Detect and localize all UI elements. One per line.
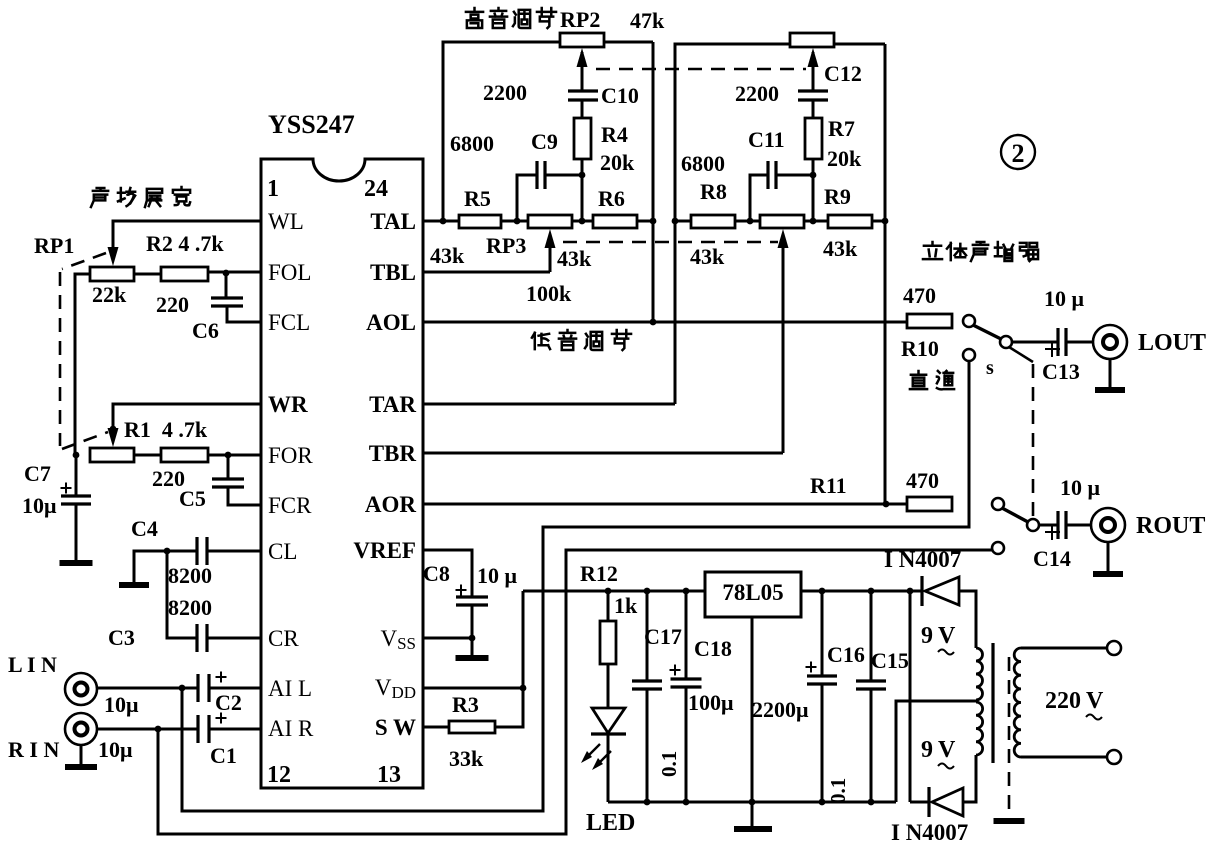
svg-text:YSS247: YSS247 bbox=[268, 110, 355, 139]
svg-text:47k: 47k bbox=[630, 8, 665, 33]
wire TAR bbox=[424, 403, 675, 406]
node RP1b left bbox=[73, 452, 80, 459]
capacitor C18 100u bbox=[670, 591, 702, 802]
label C13 bbox=[1042, 359, 1080, 384]
label 470 R10 bbox=[903, 283, 936, 308]
capacitor C17 0.1 bbox=[632, 591, 662, 802]
label R3 bbox=[452, 692, 479, 717]
regulator 78L05 bbox=[705, 572, 801, 617]
wire C4 left bbox=[134, 551, 197, 583]
label C7 bbox=[24, 461, 51, 486]
label C18 bbox=[694, 636, 732, 661]
svg-text:1k: 1k bbox=[614, 593, 638, 618]
node C16 top bbox=[868, 588, 875, 595]
label 8200 C3 bbox=[168, 595, 212, 620]
RP1b wiper arrow bbox=[108, 426, 119, 447]
label C3 bbox=[108, 625, 135, 650]
svg-text:LED: LED bbox=[586, 810, 635, 836]
capacitor C7 10u bbox=[61, 455, 92, 504]
node C8 VSS bbox=[469, 635, 476, 642]
svg-text:470: 470 bbox=[903, 283, 936, 308]
svg-text:AI R: AI R bbox=[268, 716, 314, 741]
label treble adjust RP2 bbox=[466, 7, 600, 32]
svg-text:C3: C3 bbox=[108, 625, 135, 650]
label 2200 right bbox=[735, 81, 779, 106]
svg-text:R12: R12 bbox=[580, 561, 618, 586]
label stereo enhance bbox=[923, 242, 1038, 261]
wire C13 to LOUT bbox=[1066, 341, 1093, 344]
capacitor C19 2200u bbox=[806, 591, 838, 802]
wire center tap bbox=[896, 701, 976, 802]
svg-text:10μ: 10μ bbox=[104, 692, 139, 717]
svg-text:V: V bbox=[938, 737, 956, 763]
svg-text:10μ: 10μ bbox=[98, 737, 133, 762]
gang dashed RP1 bottom diag bbox=[62, 432, 108, 449]
label YSS247 bbox=[268, 110, 355, 139]
node 78L05 gnd rail bbox=[749, 799, 756, 806]
svg-text:RP3: RP3 bbox=[486, 233, 526, 258]
svg-text:V: V bbox=[938, 623, 956, 649]
svg-text:FCL: FCL bbox=[268, 310, 310, 335]
node RP3b/R9 bbox=[810, 218, 817, 225]
ground 78L05 bbox=[734, 826, 772, 832]
svg-text:ROUT: ROUT bbox=[1136, 513, 1205, 539]
svg-text:100μ: 100μ bbox=[688, 690, 734, 715]
svg-text:33k: 33k bbox=[449, 746, 484, 771]
wire TAL to RP2 left bbox=[443, 42, 560, 221]
label direct bbox=[910, 371, 954, 389]
transformer secondary winding bottom 9V bbox=[976, 702, 983, 755]
wire to D2 bbox=[910, 801, 929, 804]
ground C4 bbox=[119, 582, 149, 588]
wire AOR bbox=[424, 503, 907, 506]
pin label VDD bbox=[375, 675, 416, 702]
wire D1 to xfmr bbox=[959, 591, 976, 648]
gang dashed link RP2-RP2b bbox=[596, 68, 806, 71]
wire C3 to CR bbox=[207, 637, 261, 640]
diode D1 1N4007 bbox=[922, 576, 959, 606]
node C17 top bbox=[644, 588, 651, 595]
node R12 top bbox=[605, 588, 612, 595]
svg-text:R I N: R I N bbox=[8, 737, 59, 762]
svg-text:78L05: 78L05 bbox=[722, 580, 783, 605]
label C17 bbox=[644, 624, 682, 649]
wire RP3 to R6 bbox=[572, 220, 593, 223]
wire R5 to RP3 bbox=[501, 220, 528, 223]
switch link stub bbox=[1009, 347, 1033, 362]
label C1 bbox=[210, 743, 237, 768]
ground R IN bbox=[65, 764, 97, 770]
wire SW to R3 bbox=[424, 726, 449, 729]
wire C1 to AI R bbox=[209, 728, 261, 731]
label 43k R8 bbox=[690, 244, 725, 269]
label 2200u bbox=[752, 697, 809, 722]
svg-text:C11: C11 bbox=[748, 127, 785, 152]
label 100k bbox=[526, 281, 572, 306]
wire R4 to node bbox=[581, 159, 584, 221]
pin label AI R bbox=[268, 716, 314, 741]
svg-text:C5: C5 bbox=[179, 486, 206, 511]
capacitor C9 6800 bbox=[537, 161, 545, 189]
resistor R9 43k bbox=[828, 215, 872, 228]
LED D3 bbox=[591, 708, 626, 734]
wire ROUT ground stem bbox=[1107, 542, 1110, 572]
svg-text:FCR: FCR bbox=[268, 493, 312, 518]
svg-text:2: 2 bbox=[1012, 139, 1025, 168]
svg-text:C1: C1 bbox=[210, 743, 237, 768]
ground LOUT bbox=[1095, 387, 1125, 393]
node R1/C5 bbox=[225, 452, 232, 459]
label 220 C6 bbox=[156, 292, 189, 317]
label 9V bottom bbox=[921, 737, 956, 769]
wire VREF to C8 bbox=[424, 550, 472, 597]
svg-text:S W: S W bbox=[375, 715, 416, 740]
pin label AI L bbox=[268, 676, 312, 701]
ground C7 bbox=[60, 560, 93, 566]
wire R12 to LED bbox=[607, 664, 610, 708]
pin label TAR bbox=[369, 392, 416, 417]
svg-text:C15: C15 bbox=[871, 648, 909, 673]
wire C9 left down bbox=[517, 175, 537, 221]
wire node to C3 bbox=[167, 551, 197, 638]
ground C8 bbox=[456, 655, 489, 661]
svg-text:C12: C12 bbox=[824, 61, 862, 86]
capacitor C3 8200 bbox=[197, 624, 207, 652]
potentiometer RP3b 100k bbox=[760, 215, 804, 228]
label 20k bbox=[600, 150, 635, 175]
svg-text:C10: C10 bbox=[601, 83, 639, 108]
svg-text:220: 220 bbox=[156, 292, 189, 317]
label C14 bbox=[1033, 546, 1071, 571]
svg-text:43k: 43k bbox=[823, 236, 858, 261]
label 43k R9 bbox=[823, 236, 858, 261]
node R9 rail bbox=[882, 218, 889, 225]
svg-text:RP2: RP2 bbox=[560, 7, 600, 32]
switch R common bbox=[1027, 519, 1039, 531]
svg-text:C13: C13 bbox=[1042, 359, 1080, 384]
label 100u bbox=[688, 690, 734, 715]
label 8200 C4 bbox=[168, 563, 212, 588]
node 2200u bottom bbox=[819, 799, 826, 806]
pin label CL bbox=[268, 539, 297, 564]
svg-text:CL: CL bbox=[268, 539, 297, 564]
wire RP2 right to rail bbox=[604, 41, 653, 44]
wire VSS bbox=[424, 637, 472, 640]
label LED bbox=[586, 810, 635, 836]
wire RP2b right to rail bbox=[834, 43, 885, 46]
capacitor C10 2200 bbox=[568, 91, 598, 100]
pin 12 label bbox=[267, 762, 291, 788]
label RP1 bbox=[34, 233, 74, 258]
pin label CR bbox=[268, 626, 299, 651]
capacitor C4 8200 bbox=[197, 537, 207, 565]
resistor R5 43k bbox=[459, 215, 501, 228]
gang dashed RP1 vertical bbox=[59, 272, 62, 446]
capacitor C14 10u bbox=[1045, 511, 1066, 540]
gang dashed link RP3-RP3b bbox=[563, 241, 778, 244]
svg-text:C18: C18 bbox=[694, 636, 732, 661]
pin label SW bbox=[375, 715, 416, 740]
label R9 bbox=[824, 184, 851, 209]
label R1 4.7k bbox=[124, 417, 208, 442]
capacitor C16 0.1 bbox=[856, 591, 886, 802]
wire R6 to rail bbox=[637, 220, 653, 223]
svg-text:R10: R10 bbox=[901, 336, 939, 361]
svg-text:L I N: L I N bbox=[8, 652, 57, 677]
pin label TAL bbox=[370, 209, 416, 234]
svg-text:10 μ: 10 μ bbox=[1044, 286, 1085, 311]
label 10u C13 bbox=[1044, 286, 1085, 311]
node C18 top bbox=[683, 588, 690, 595]
wire R1 to FOR bbox=[208, 454, 261, 457]
svg-text:20k: 20k bbox=[600, 150, 635, 175]
wire C10 to R4 bbox=[581, 100, 584, 118]
pin 24 label bbox=[364, 176, 388, 202]
wire VDD bbox=[424, 687, 523, 690]
RP2 wiper arrow bbox=[577, 48, 588, 91]
svg-text:2200: 2200 bbox=[483, 80, 527, 105]
svg-text:20k: 20k bbox=[827, 146, 862, 171]
LED arrows bbox=[581, 744, 611, 770]
label 220V bbox=[1045, 688, 1104, 720]
svg-text:CR: CR bbox=[268, 626, 299, 651]
svg-text:TAL: TAL bbox=[370, 209, 416, 234]
resistor R7 20k bbox=[805, 118, 822, 159]
svg-text:TBL: TBL bbox=[370, 260, 416, 285]
wire primary bottom bbox=[1021, 756, 1107, 759]
wire TBR bbox=[424, 452, 783, 455]
svg-text:AI L: AI L bbox=[268, 676, 312, 701]
node R4/C9 bbox=[579, 172, 586, 179]
node C4 bbox=[164, 548, 171, 555]
wire TAL to R5 bbox=[424, 220, 459, 223]
svg-text:C2: C2 bbox=[215, 690, 242, 715]
pin label WR bbox=[268, 392, 308, 417]
label RP3 bbox=[486, 233, 526, 258]
svg-text:43k: 43k bbox=[430, 243, 465, 268]
wire C5 to FCR bbox=[228, 487, 261, 505]
wire WR bbox=[113, 404, 261, 434]
label 43k R5 bbox=[430, 243, 465, 268]
label R2 4.7k bbox=[146, 231, 224, 256]
capacitor C5 220 bbox=[212, 479, 244, 487]
connector ROUT bbox=[1091, 508, 1125, 542]
svg-text:R5: R5 bbox=[464, 186, 491, 211]
svg-text:s: s bbox=[986, 357, 994, 379]
resistor R10 470 bbox=[907, 314, 952, 328]
RP2b wiper arrow bbox=[808, 48, 819, 91]
label R8 bbox=[700, 179, 727, 204]
wire C11 right to node bbox=[776, 174, 813, 177]
svg-text:TAR: TAR bbox=[369, 392, 416, 417]
wire C6 to FCL bbox=[227, 306, 261, 322]
svg-text:8200: 8200 bbox=[168, 595, 212, 620]
label C15 bbox=[871, 648, 909, 673]
label 43k RP3 bbox=[557, 246, 592, 271]
capacitor C11 6800 bbox=[768, 161, 776, 189]
wire L IN to C2 bbox=[97, 687, 198, 690]
wire C14 to ROUT bbox=[1066, 524, 1091, 527]
wire left feedback rail bbox=[652, 42, 655, 322]
wire R8 to RP3b bbox=[735, 220, 760, 223]
wire R IN to C1 bbox=[97, 728, 198, 731]
svg-text:R7: R7 bbox=[828, 116, 855, 141]
wire common to C14 bbox=[1039, 524, 1058, 527]
wire C8 down bbox=[471, 605, 474, 656]
svg-text:12: 12 bbox=[267, 762, 291, 788]
node C17 bottom bbox=[644, 799, 651, 806]
wire 78L05 out bbox=[801, 590, 922, 593]
node TAL junction bbox=[440, 218, 447, 225]
node 2200u top bbox=[819, 588, 826, 595]
label C10 bbox=[601, 83, 639, 108]
label 0.1 C16 bbox=[826, 778, 850, 804]
label 1k bbox=[614, 593, 638, 618]
label 1N4007 top bbox=[884, 547, 961, 572]
label C12 bbox=[824, 61, 862, 86]
switch L arm bbox=[973, 325, 1001, 339]
wire LOUT ground stem bbox=[1109, 359, 1112, 388]
svg-text:43k: 43k bbox=[690, 244, 725, 269]
transformer core bbox=[991, 643, 994, 763]
wire L direct bypass bbox=[182, 361, 969, 811]
svg-text:R2 4 .7k: R2 4 .7k bbox=[146, 231, 224, 256]
svg-text:470: 470 bbox=[906, 468, 939, 493]
svg-text:V: V bbox=[1086, 688, 1104, 714]
label R7 bbox=[828, 116, 855, 141]
svg-text:C6: C6 bbox=[192, 318, 219, 343]
label 1N4007 bottom bbox=[891, 820, 968, 845]
resistor R12 1k bbox=[600, 621, 616, 664]
wire ground rail bbox=[608, 801, 896, 804]
svg-text:0.1: 0.1 bbox=[657, 751, 681, 777]
node R2/C6 bbox=[223, 270, 230, 277]
wire C12 to R7 bbox=[812, 100, 815, 118]
pin label FOL bbox=[268, 260, 311, 285]
svg-text:10μ: 10μ bbox=[22, 493, 57, 518]
svg-text:43k: 43k bbox=[557, 246, 592, 271]
node C18 bottom bbox=[683, 799, 690, 806]
svg-text:VREF: VREF bbox=[353, 538, 416, 563]
svg-text:R8: R8 bbox=[700, 179, 727, 204]
svg-text:R9: R9 bbox=[824, 184, 851, 209]
label C2 bbox=[215, 690, 242, 715]
svg-text:AOL: AOL bbox=[366, 310, 416, 335]
wire R12 top bbox=[607, 591, 610, 621]
wire R7 to node bbox=[812, 159, 815, 221]
svg-text:100k: 100k bbox=[526, 281, 572, 306]
svg-text:R11: R11 bbox=[810, 473, 847, 498]
svg-text:6800: 6800 bbox=[681, 151, 725, 176]
potentiometer RP2 47k bbox=[560, 33, 604, 47]
svg-text:FOR: FOR bbox=[268, 443, 313, 468]
node AOR rail bbox=[883, 501, 890, 508]
transformer secondary winding top 9V bbox=[976, 648, 983, 700]
switch R direct contact bbox=[992, 542, 1004, 554]
label R6 bbox=[598, 186, 625, 211]
svg-text:2200μ: 2200μ bbox=[752, 697, 809, 722]
label C4 bbox=[131, 516, 158, 541]
svg-text:WR: WR bbox=[268, 392, 308, 417]
node C16 bottom bbox=[868, 799, 875, 806]
capacitor C8 10u bbox=[456, 585, 489, 606]
switch L contact from R10 bbox=[963, 315, 975, 327]
pin label VSS bbox=[380, 626, 416, 653]
svg-text:R3: R3 bbox=[452, 692, 479, 717]
label R5 bbox=[464, 186, 491, 211]
node R7/C11 bbox=[810, 172, 817, 179]
pin label FCL bbox=[268, 310, 310, 335]
svg-text:10 μ: 10 μ bbox=[477, 563, 518, 588]
label R12 bbox=[580, 561, 618, 586]
svg-text:TBR: TBR bbox=[369, 441, 417, 466]
svg-text:I N4007: I N4007 bbox=[884, 547, 961, 572]
label LOUT bbox=[1138, 330, 1206, 356]
op-amp U1 YSS247 IC body bbox=[261, 159, 423, 788]
label 6800 right bbox=[681, 151, 725, 176]
svg-text:AOR: AOR bbox=[365, 492, 417, 517]
wire C9 right to node bbox=[545, 174, 582, 177]
label bass adjust bbox=[532, 330, 631, 350]
potentiometer RP3 100k bbox=[528, 215, 572, 228]
pin 13 label bbox=[377, 762, 401, 788]
label C11 bbox=[748, 127, 785, 152]
wire C7 to ground bbox=[75, 504, 78, 561]
svg-text:9: 9 bbox=[921, 737, 933, 763]
wire rect riser bbox=[909, 591, 912, 802]
svg-text:0.1: 0.1 bbox=[826, 778, 850, 804]
switch L common bbox=[1000, 336, 1012, 348]
ground ROUT bbox=[1093, 571, 1123, 577]
resistor R2 4.7k bbox=[161, 267, 208, 281]
diode D2 1N4007 bbox=[929, 787, 963, 817]
label 10u C14 bbox=[1060, 475, 1101, 500]
gang dashed RP1 top diag bbox=[62, 253, 106, 269]
potentiometer RP2b 47k right bbox=[790, 33, 834, 47]
label R4 bbox=[601, 122, 628, 147]
node rail AOL bbox=[650, 319, 657, 326]
svg-text:WL: WL bbox=[268, 209, 304, 234]
label C16 bbox=[827, 642, 865, 667]
pin label VREF bbox=[353, 538, 416, 563]
label 220 C5 bbox=[152, 466, 185, 491]
label 20k right bbox=[827, 146, 862, 171]
node RP3b left bbox=[747, 218, 754, 225]
wire R9 to rail bbox=[872, 220, 885, 223]
switch L direct contact bbox=[963, 349, 975, 361]
capacitor C12 2200 bbox=[798, 91, 828, 100]
wire 78L05 ground pin bbox=[751, 617, 754, 827]
capacitor C6 220 bbox=[211, 298, 243, 306]
node D rail bbox=[907, 588, 914, 595]
transformer shield dashed bbox=[1008, 657, 1011, 812]
wire TBL bbox=[424, 271, 550, 274]
svg-text:2200: 2200 bbox=[735, 81, 779, 106]
wire common to C13 bbox=[1012, 341, 1058, 344]
svg-text:R1 4 .7k: R1 4 .7k bbox=[124, 417, 208, 442]
svg-text:R6: R6 bbox=[598, 186, 625, 211]
node R8 rail bbox=[672, 218, 679, 225]
wire RP1a to R2 bbox=[134, 273, 161, 276]
ground shield bbox=[994, 818, 1025, 824]
connector L IN bbox=[65, 673, 97, 705]
svg-text:FOL: FOL bbox=[268, 260, 311, 285]
wire R2 to FOL bbox=[208, 271, 261, 274]
label C8 bbox=[423, 561, 450, 586]
svg-text:LOUT: LOUT bbox=[1138, 330, 1206, 356]
svg-text:220: 220 bbox=[1045, 688, 1081, 714]
circled 2 figure label bbox=[1001, 135, 1035, 169]
